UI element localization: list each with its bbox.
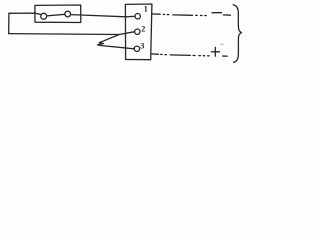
wire: run to terminal block contact 3 xyxy=(102,46,135,49)
plug P1 (attachment plug body) xyxy=(35,5,81,23)
terminal contact 2 xyxy=(135,29,140,34)
wire: top-left horizontal from left edge to plug xyxy=(9,13,41,15)
curly brace (battery connection) xyxy=(233,5,241,63)
scan speckle near brace xyxy=(221,43,223,45)
wire: plug to terminal block contact 1 xyxy=(71,15,136,17)
plug contact A (left circle) xyxy=(41,13,47,19)
polarity label minus xyxy=(212,12,221,14)
polarity label plus xyxy=(211,47,219,56)
wire: left vertical drop xyxy=(8,13,10,33)
terminal contact 3 xyxy=(134,46,139,51)
wire: zigzag diagonal (hand-drawn squiggle) xyxy=(99,35,119,43)
terminal block TB1 xyxy=(125,4,151,60)
svg-text:2: 2 xyxy=(141,25,145,34)
wire: link between plug contacts xyxy=(47,14,65,16)
svg-text:3: 3 xyxy=(140,42,144,51)
plug contact B (right circle) xyxy=(65,11,71,17)
wire: bottom run to terminal block contact 2 xyxy=(9,32,135,35)
wire: zigzag chevrons xyxy=(97,43,103,46)
dash-dot line from terminal 1 to minus xyxy=(153,13,161,15)
dash-dot line from terminal 3 to plus xyxy=(152,53,159,55)
svg-text:1: 1 xyxy=(144,5,148,14)
terminal contact 1 xyxy=(135,14,140,19)
